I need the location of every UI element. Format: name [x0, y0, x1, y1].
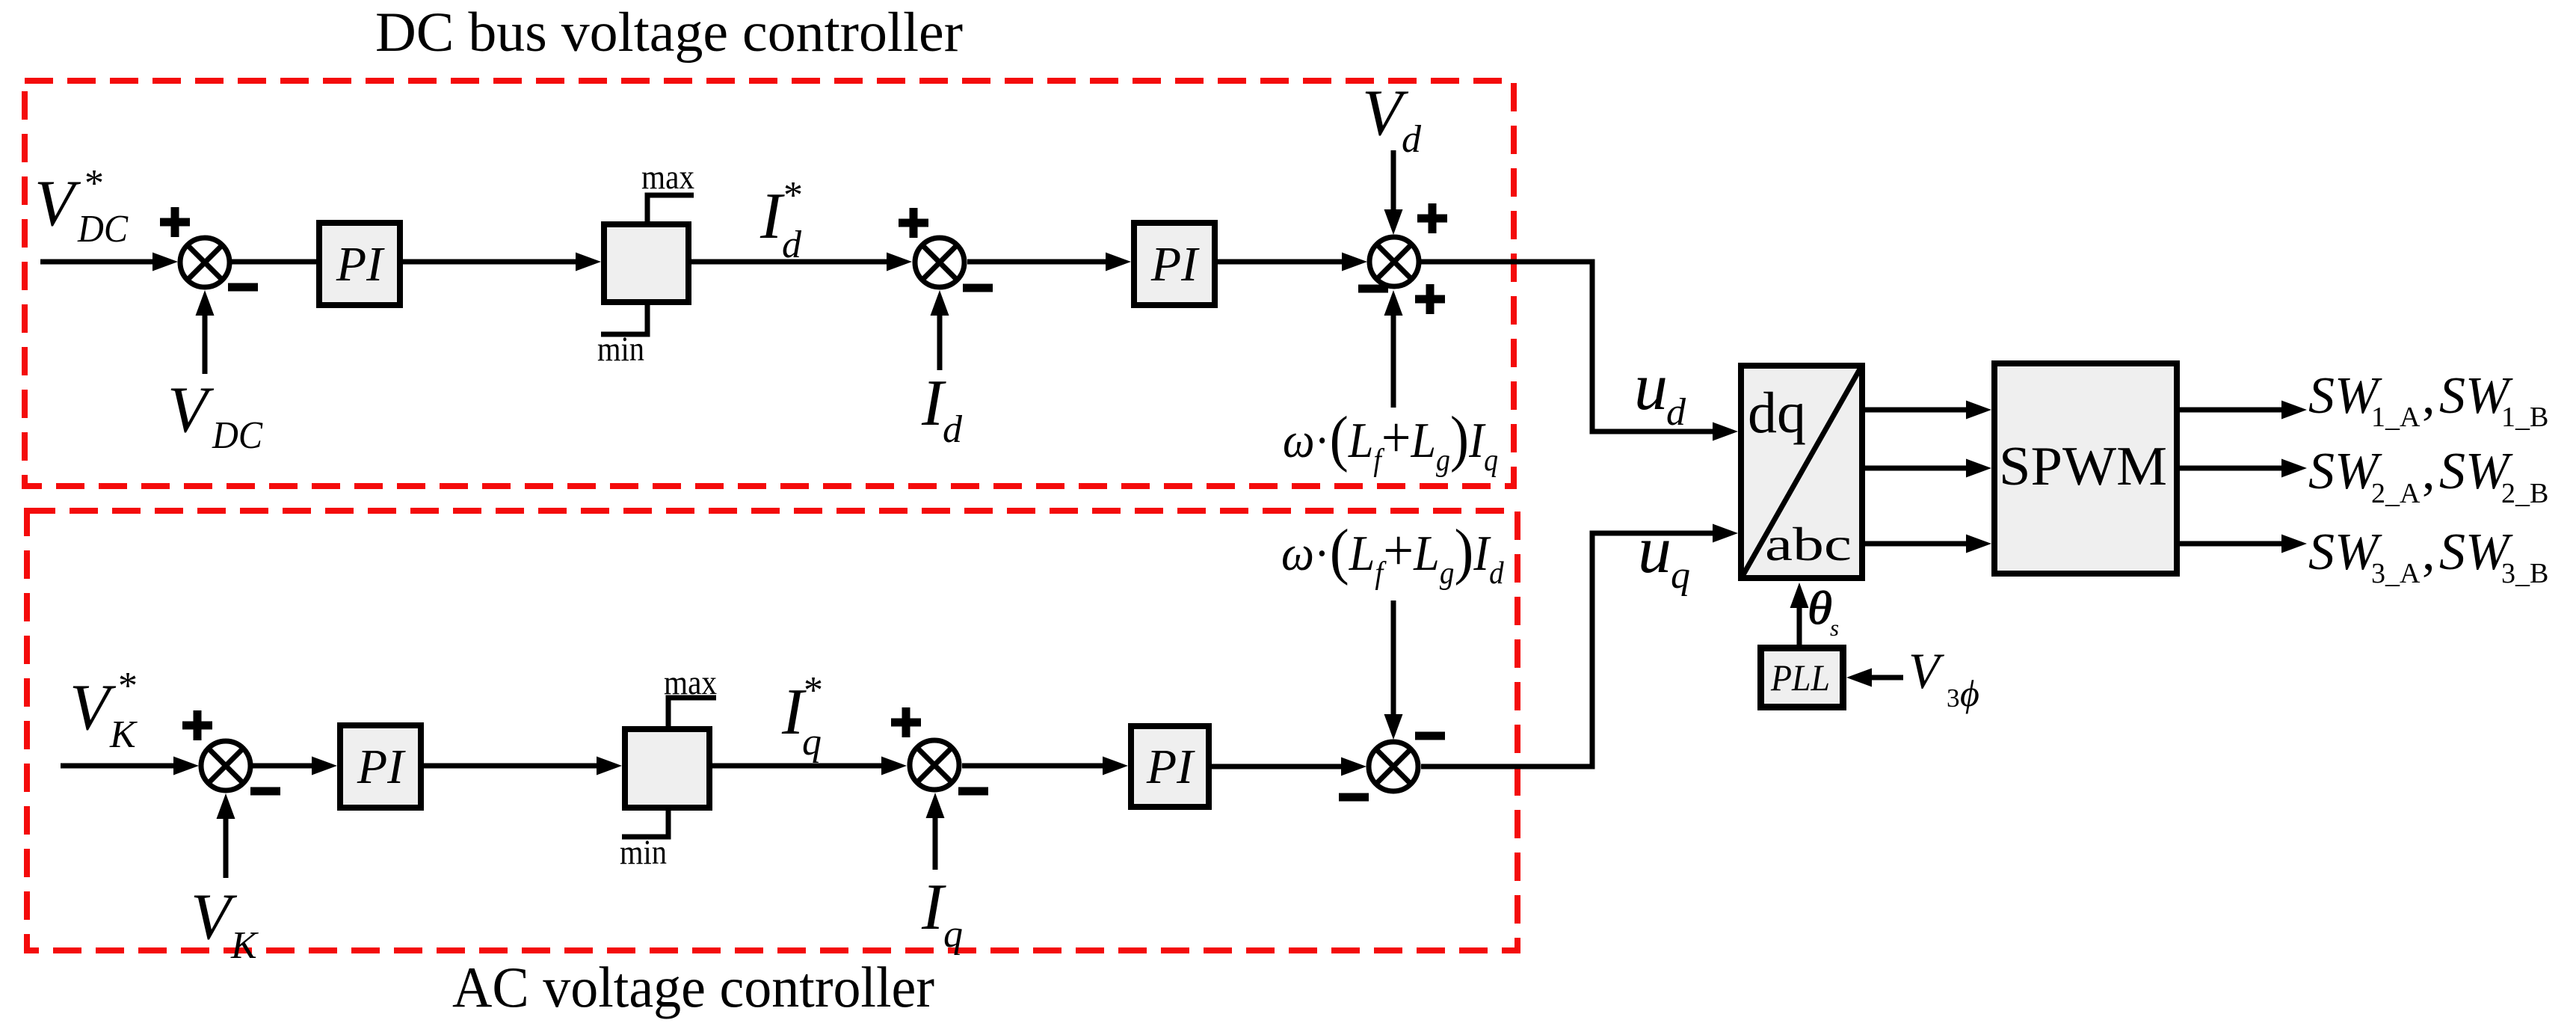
svg-text:PLL: PLL — [1770, 657, 1830, 698]
svg-text:d: d — [1666, 391, 1686, 434]
svg-text:dq: dq — [1748, 380, 1806, 445]
svg-text:I: I — [921, 871, 946, 944]
svg-text:3_A: 3_A — [2371, 558, 2421, 589]
svg-text:2_B: 2_B — [2501, 478, 2548, 509]
svg-text:q: q — [802, 721, 822, 764]
svg-text:u: u — [1638, 513, 1671, 587]
svg-text:PI: PI — [1150, 237, 1200, 292]
svg-text:,: , — [2422, 523, 2435, 581]
svg-text:min: min — [597, 330, 644, 369]
svg-text:*: * — [84, 162, 104, 205]
svg-text:AC voltage controller: AC voltage controller — [452, 955, 934, 1019]
svg-text:*: * — [783, 174, 803, 217]
svg-text:PI: PI — [336, 237, 385, 292]
svg-text:SPWM: SPWM — [1999, 436, 2167, 497]
svg-text:PI: PI — [357, 740, 406, 794]
svg-text:min: min — [620, 833, 667, 872]
svg-text:V: V — [167, 374, 215, 446]
svg-text:s: s — [1830, 615, 1839, 641]
svg-text:PI: PI — [1146, 740, 1195, 794]
svg-text:DC: DC — [77, 208, 129, 251]
svg-text:*: * — [118, 665, 138, 707]
svg-text:q: q — [1671, 554, 1690, 597]
svg-text:DC: DC — [212, 414, 263, 457]
svg-text:d: d — [1402, 118, 1422, 161]
svg-text:d: d — [943, 408, 963, 451]
svg-text:K: K — [230, 924, 259, 967]
svg-text:3: 3 — [1947, 684, 1960, 713]
svg-text:*: * — [804, 669, 823, 712]
svg-text:DC bus voltage controller: DC bus voltage controller — [375, 1, 963, 64]
svg-text:2_A: 2_A — [2371, 478, 2421, 509]
svg-text:1_B: 1_B — [2501, 402, 2548, 433]
svg-text:q: q — [943, 913, 963, 956]
svg-text:,: , — [2422, 443, 2435, 500]
svg-text:1_A: 1_A — [2371, 402, 2421, 433]
svg-text:3_B: 3_B — [2501, 558, 2548, 589]
svg-text:ϕ: ϕ — [1960, 672, 1979, 714]
svg-text:,: , — [2422, 367, 2435, 425]
svg-text:d: d — [782, 224, 802, 266]
svg-text:max: max — [664, 663, 717, 702]
svg-text:V: V — [34, 168, 81, 240]
svg-text:I: I — [759, 180, 785, 253]
svg-text:ω·(Lf+Lg)Id: ω·(Lf+Lg)Id — [1281, 516, 1504, 590]
svg-text:abc: abc — [1765, 517, 1852, 571]
svg-text:u: u — [1634, 350, 1668, 424]
svg-text:θ: θ — [1808, 583, 1832, 634]
svg-text:K: K — [109, 713, 138, 756]
svg-text:max: max — [641, 158, 694, 197]
svg-text:ω·(Lf+Lg)Iq: ω·(Lf+Lg)Iq — [1283, 404, 1498, 477]
